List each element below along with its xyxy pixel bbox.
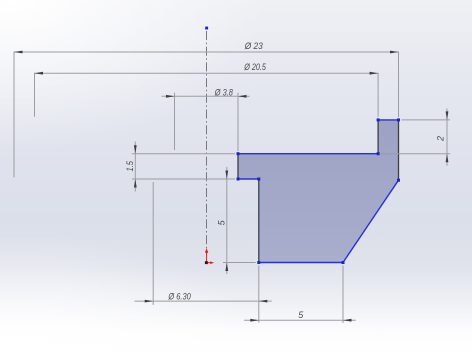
edge step vertical (black) (237, 154, 239, 179)
svg-text:1.5: 1.5 (125, 160, 135, 171)
svg-text:Ø 20.5: Ø 20.5 (243, 62, 266, 72)
svg-text:Ø 3.8: Ø 3.8 (214, 87, 233, 97)
origin point (205, 261, 208, 264)
origin marker (red) (205, 248, 214, 264)
dimension D6.30 (135, 182, 272, 323)
svg-text:Ø 6.30: Ø 6.30 (168, 292, 191, 302)
centerline (dash-dot construction line) (206, 31, 208, 248)
vertex dots (237, 118, 401, 264)
svg-text:5: 5 (216, 219, 226, 225)
svg-text:Ø 23: Ø 23 (244, 41, 263, 51)
dimension D3.8 (162, 93, 250, 151)
dimension 5 (horizontal bottom) (244, 266, 356, 324)
svg-text:2: 2 (436, 136, 446, 142)
dimension 2 (flange height, right) (381, 109, 450, 166)
dimension 1.5 (step height, left) (132, 142, 235, 192)
edge top (blue) (238, 153, 378, 155)
svg-text:5: 5 (298, 310, 304, 320)
dimension D23 (14, 52, 399, 178)
edge step horizontal (blue) (238, 178, 259, 180)
sketch start point (blue) (205, 27, 208, 30)
edge diagonal (blue) (343, 180, 399, 262)
edge flange left (black) (377, 120, 379, 154)
edge flange top (blue) (378, 119, 398, 121)
edge bottom (blue) (259, 262, 343, 264)
profile fill (238, 120, 399, 263)
edge flange right (black) (398, 120, 400, 180)
dimension 5 (vertical) (223, 167, 256, 274)
edge left vertical (black) (258, 179, 260, 263)
dimension D20.5 (35, 73, 379, 117)
